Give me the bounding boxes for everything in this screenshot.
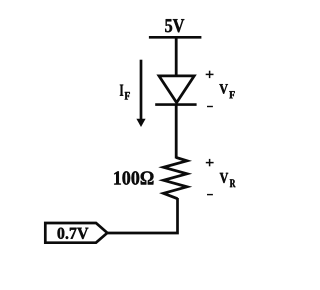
label + (VR) (206, 159, 214, 166)
label IF (120, 85, 130, 100)
diode (155, 76, 196, 105)
wire: rail to diode anode (175, 37, 178, 76)
label minus (VR) (207, 194, 213, 195)
current arrow IF (136, 60, 145, 127)
wire: diode cathode to resistor (175, 105, 178, 159)
net label 0.7V (58, 228, 89, 239)
label VF (219, 84, 234, 98)
power label 5V (165, 19, 184, 32)
label minus (VF) (207, 106, 213, 107)
label VR (220, 173, 236, 187)
label 100ohm (114, 171, 153, 184)
net flag 0.7V (45, 223, 107, 243)
wire: resistor to net flag (107, 198, 178, 233)
power rail bar (149, 36, 202, 39)
label + (VF) (206, 71, 214, 78)
resistor 100ohm (164, 158, 188, 199)
